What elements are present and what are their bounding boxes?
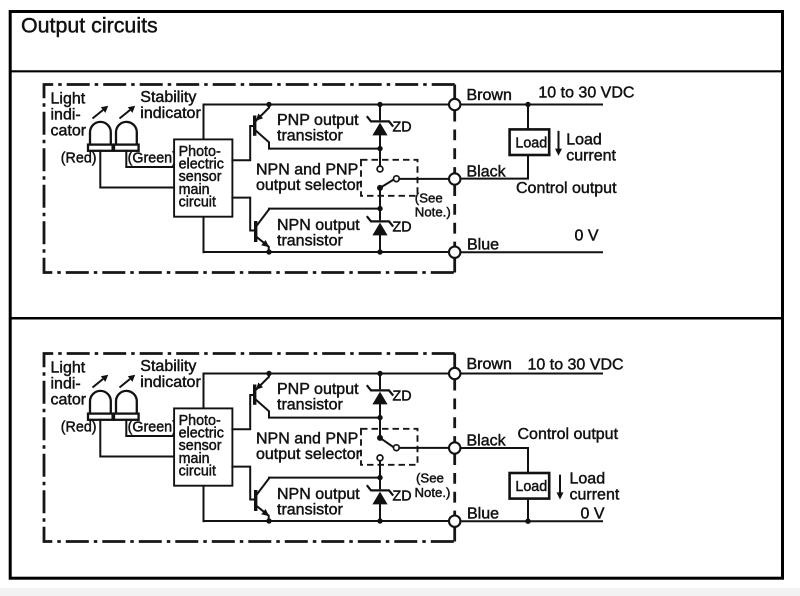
label ZD upper (top panel) bbox=[393, 120, 412, 136]
svg-text:Light: Light bbox=[51, 360, 86, 377]
switch S1 contacts and lever (PNP selected) (bottom panel) bbox=[377, 418, 399, 478]
terminal Black (bottom panel) bbox=[449, 442, 460, 453]
svg-text:NPN and PNP: NPN and PNP bbox=[256, 430, 358, 447]
label NPN and PNP output selector (bottom panel) bbox=[256, 430, 362, 463]
wire brown +V top rail (bottom panel) bbox=[204, 371, 603, 408]
label Black (top panel) bbox=[467, 163, 507, 180]
box U1 photoelectric sensor main circuit (bottom panel) bbox=[174, 408, 232, 485]
wire terminal boundary line segments at x=454.7 (top panel) bbox=[453, 85, 456, 273]
label Control output (top panel) bbox=[516, 180, 617, 197]
label NPN output transistor (bottom panel) bbox=[277, 486, 360, 519]
svg-text:Blue: Blue bbox=[467, 505, 499, 522]
svg-text:current: current bbox=[570, 486, 620, 503]
zener diode ZD upper (top panel) bbox=[367, 105, 393, 152]
svg-text:NPN and PNP: NPN and PNP bbox=[256, 161, 358, 178]
svg-text:Black: Black bbox=[467, 432, 507, 449]
svg-text:PNP output: PNP output bbox=[277, 381, 359, 398]
wire terminal boundary line segments at x=454.7 (bottom panel) bbox=[453, 354, 456, 542]
zener diode ZD lower (top panel) bbox=[367, 206, 393, 252]
svg-text:PNP output: PNP output bbox=[277, 112, 359, 129]
box U1 photoelectric sensor main circuit (top panel) bbox=[174, 139, 232, 216]
svg-text:NPN output: NPN output bbox=[277, 486, 360, 503]
svg-text:output selector: output selector bbox=[256, 177, 362, 194]
load current arrow (top panel) bbox=[555, 131, 562, 156]
svg-text:ZD: ZD bbox=[393, 389, 412, 405]
svg-text:ZD: ZD bbox=[393, 220, 412, 236]
svg-text:indicator: indicator bbox=[140, 374, 201, 391]
label (Red) (top panel) bbox=[61, 150, 97, 166]
label Load current (top panel) bbox=[566, 132, 616, 165]
label ZD lower (top panel) bbox=[393, 220, 412, 236]
label Brown (bottom panel) bbox=[467, 356, 512, 373]
label PNP output transistor (bottom panel) bbox=[277, 381, 359, 414]
svg-text:transistor: transistor bbox=[277, 232, 343, 249]
LED red light indicator (top panel) bbox=[88, 122, 174, 188]
label NPN output transistor (top panel) bbox=[277, 217, 360, 250]
label (Red) (bottom panel) bbox=[61, 419, 97, 435]
svg-text:transistor: transistor bbox=[277, 127, 343, 144]
svg-text:Load: Load bbox=[570, 470, 606, 487]
label PNP output transistor (top panel) bbox=[277, 112, 359, 145]
wire load to 0V rail (bottom panel) bbox=[525, 499, 530, 524]
svg-text:indi-: indi- bbox=[51, 107, 81, 124]
svg-text:transistor: transistor bbox=[277, 396, 343, 413]
boundary dash-dot sensor outline box (top panel) bbox=[44, 85, 455, 273]
wire 0V bottom rail (bottom panel) bbox=[204, 486, 603, 524]
svg-text:ZD: ZD bbox=[393, 120, 412, 136]
wire load branch from Black terminal (bottom panel) bbox=[461, 448, 529, 473]
LED green emission arrow (top panel) bbox=[120, 106, 136, 119]
transistor Q2 NPN output (bottom panel) bbox=[232, 467, 380, 521]
label (See Note.) (top panel) bbox=[415, 190, 451, 219]
svg-text:output selector: output selector bbox=[256, 446, 362, 463]
svg-text:ZD: ZD bbox=[393, 489, 412, 505]
svg-text:Load: Load bbox=[515, 135, 547, 151]
switch S1 contacts and lever (NPN selected) (top panel) bbox=[377, 149, 399, 209]
svg-text:10 to 30 VDC: 10 to 30 VDC bbox=[528, 357, 624, 374]
transistor Q1 PNP output (top panel) bbox=[232, 105, 380, 161]
load box (bottom panel) bbox=[510, 473, 550, 499]
label 0 V (top panel) bbox=[575, 227, 599, 244]
wire load branch from +V (top panel) bbox=[527, 105, 529, 130]
svg-text:10 to 30 VDC: 10 to 30 VDC bbox=[538, 85, 634, 102]
panel separator line bbox=[10, 317, 783, 320]
label Stability indicator (top panel) bbox=[140, 89, 201, 122]
label 0 V (bottom panel) bbox=[581, 505, 605, 522]
label Control output (bottom panel) bbox=[518, 426, 619, 443]
svg-text:Stability: Stability bbox=[140, 358, 196, 375]
svg-text:Blue: Blue bbox=[467, 236, 499, 253]
svg-text:cator: cator bbox=[51, 123, 87, 140]
label ZD upper (bottom panel) bbox=[393, 389, 412, 405]
switch S1 output selector dashed box (bottom panel) bbox=[361, 429, 418, 465]
svg-text:Light: Light bbox=[51, 91, 86, 108]
svg-text:circuit: circuit bbox=[179, 194, 216, 210]
svg-text:Stability: Stability bbox=[140, 89, 196, 106]
wire load to Black terminal (top panel) bbox=[461, 155, 529, 179]
label Blue (bottom panel) bbox=[467, 505, 499, 522]
svg-text:cator: cator bbox=[51, 392, 87, 409]
zener diode ZD lower (bottom panel) bbox=[367, 475, 393, 521]
wire 0V bottom rail (top panel) bbox=[204, 217, 603, 255]
wire switch pivot to Black terminal (bottom panel) bbox=[399, 447, 449, 449]
terminal Brown (bottom panel) bbox=[449, 368, 460, 379]
boundary dash-dot sensor outline box (bottom panel) bbox=[44, 354, 455, 542]
svg-text:(Green): (Green) bbox=[128, 419, 177, 435]
svg-text:transistor: transistor bbox=[277, 501, 343, 518]
label Stability indicator (bottom panel) bbox=[140, 358, 201, 391]
wire brown +V top rail (top panel) bbox=[204, 102, 603, 139]
svg-text:Output circuits: Output circuits bbox=[21, 14, 158, 38]
label (Green) (bottom panel) bbox=[128, 419, 177, 435]
label Brown (top panel) bbox=[467, 87, 512, 104]
title separator line bbox=[10, 70, 783, 72]
svg-text:Load: Load bbox=[566, 132, 602, 149]
svg-text:NPN output: NPN output bbox=[277, 217, 360, 234]
load current arrow (bottom panel) bbox=[557, 475, 564, 500]
label Load current (bottom panel) bbox=[570, 470, 620, 503]
label 10 to 30 VDC (top panel) bbox=[538, 85, 634, 102]
label Black (bottom panel) bbox=[467, 432, 507, 449]
title Output circuits bbox=[21, 14, 158, 38]
LED green stability indicator (bottom panel) bbox=[114, 391, 174, 436]
svg-text:(See: (See bbox=[415, 190, 443, 205]
svg-text:Load: Load bbox=[515, 479, 547, 495]
terminal Blue (top panel) bbox=[449, 247, 460, 258]
label ZD lower (bottom panel) bbox=[393, 489, 412, 505]
LED green emission arrow (bottom panel) bbox=[120, 375, 136, 388]
terminal Brown (top panel) bbox=[449, 99, 460, 110]
svg-text:current: current bbox=[566, 147, 616, 164]
label 10 to 30 VDC (bottom panel) bbox=[528, 357, 624, 374]
terminal Blue (bottom panel) bbox=[449, 516, 460, 527]
LED red emission arrow (bottom panel) bbox=[93, 375, 109, 388]
load box (top panel) bbox=[510, 129, 550, 155]
label (See Note.) (bottom panel) bbox=[415, 470, 451, 500]
switch S1 output selector dashed box (top panel) bbox=[361, 160, 418, 196]
svg-text:Note.): Note.) bbox=[415, 485, 451, 500]
svg-text:(Green): (Green) bbox=[128, 150, 177, 166]
label Blue (top panel) bbox=[467, 236, 499, 253]
svg-text:Control output: Control output bbox=[518, 426, 619, 443]
svg-text:indicator: indicator bbox=[140, 105, 201, 122]
terminal Black (top panel) bbox=[449, 173, 460, 184]
LED red emission arrow (top panel) bbox=[93, 106, 109, 119]
wire switch pivot to Black terminal (top panel) bbox=[399, 178, 449, 180]
label (Green) (top panel) bbox=[128, 150, 177, 166]
svg-text:Control output: Control output bbox=[516, 180, 617, 197]
svg-text:0 V: 0 V bbox=[575, 227, 599, 244]
zener diode ZD upper (bottom panel) bbox=[367, 374, 393, 421]
LED green stability indicator (top panel) bbox=[114, 122, 174, 167]
svg-text:circuit: circuit bbox=[179, 463, 216, 479]
svg-text:(See: (See bbox=[416, 470, 444, 485]
svg-text:Note.): Note.) bbox=[415, 204, 451, 219]
label NPN and PNP output selector (top panel) bbox=[256, 161, 362, 194]
LED red light indicator (bottom panel) bbox=[88, 391, 174, 457]
svg-text:0 V: 0 V bbox=[581, 505, 605, 522]
svg-text:Brown: Brown bbox=[467, 87, 512, 104]
transistor Q1 PNP output (bottom panel) bbox=[232, 374, 380, 430]
transistor Q2 NPN output (top panel) bbox=[232, 198, 380, 252]
label Light indicator (bottom panel) bbox=[51, 360, 87, 409]
svg-text:Brown: Brown bbox=[467, 356, 512, 373]
svg-text:(Red): (Red) bbox=[61, 419, 97, 435]
svg-text:(Red): (Red) bbox=[61, 150, 97, 166]
svg-text:indi-: indi- bbox=[51, 376, 81, 393]
label Light indicator (top panel) bbox=[51, 91, 87, 140]
